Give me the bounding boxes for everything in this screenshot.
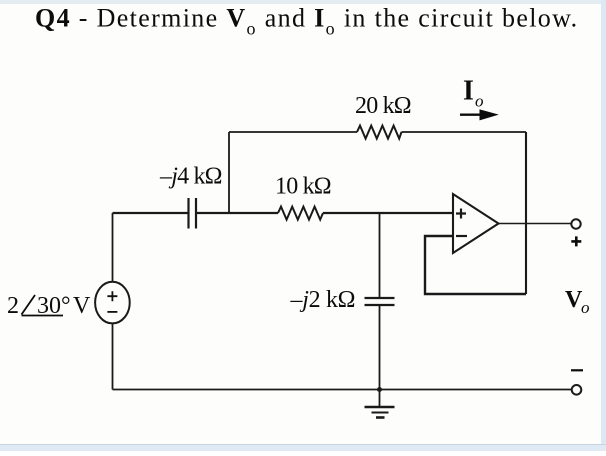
op-amp plus input mark (456, 209, 467, 237)
arrow Io (460, 110, 497, 120)
resistor R2 20 kohm (357, 126, 402, 139)
op-amp minus input mark (456, 235, 467, 237)
svg-text:o: o (581, 298, 590, 317)
terminal top (571, 219, 580, 228)
wire source branch (112, 213, 114, 390)
svg-text:30°: 30° (37, 293, 71, 319)
svg-text:–j4 kΩ: –j4 kΩ (159, 164, 222, 190)
junction dot (377, 387, 382, 392)
voltage source polarity marks (107, 291, 117, 312)
svg-text:–j2 kΩ: –j2 kΩ (290, 287, 356, 313)
label minus terminal (571, 369, 583, 371)
svg-text:20 kΩ: 20 kΩ (355, 93, 411, 119)
wire output (499, 223, 572, 225)
op-amp U1 (453, 194, 499, 253)
svg-text:o: o (475, 92, 484, 111)
ground (365, 407, 395, 418)
capacitor C2 -j2 kohm branch (379, 213, 381, 390)
label plus terminal (571, 236, 581, 246)
wire feedback loop (425, 236, 526, 294)
svg-text:10 kΩ: 10 kΩ (275, 174, 331, 200)
terminal bottom (572, 385, 582, 395)
wire bottom row (113, 389, 572, 391)
voltage source VS (95, 282, 130, 324)
svg-text:V: V (73, 293, 91, 319)
wire junction vertical (228, 132, 230, 213)
wire ground stem (379, 390, 381, 407)
wire right vertical (525, 132, 527, 294)
svg-text:2: 2 (7, 293, 19, 319)
resistor R1 10 kohm (278, 207, 323, 220)
wire top row (229, 131, 526, 133)
svg-text:I: I (463, 76, 474, 107)
wire middle row (113, 212, 454, 214)
capacitor C1 -j4 kohm (189, 198, 197, 229)
